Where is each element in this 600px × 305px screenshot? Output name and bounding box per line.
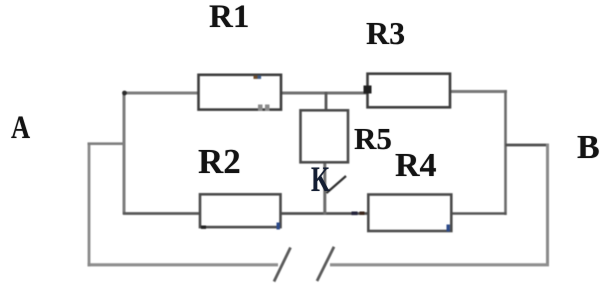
wire: outer right vertical (546, 144, 549, 266)
junction dot at R3 left pin (364, 86, 372, 94)
artifact dot at R4 bottom-right (447, 225, 450, 232)
switch K lever (open blade) (327, 176, 347, 193)
junction dot at R2 bottom-left (201, 226, 206, 229)
label R3 (366, 15, 405, 52)
artifact dot at R2 bottom-right (277, 223, 280, 230)
resistor R5 (vertical box) (301, 110, 349, 162)
wire: R2 to R4 horizontal (281, 212, 369, 215)
wire: inner-left vertical node (123, 92, 126, 215)
node label B (577, 129, 600, 167)
wire: R4 right to right vertical (451, 212, 507, 215)
break mark slash 1 on bottom wire (274, 248, 291, 282)
artifact marks inside R1 bottom-right (258, 105, 263, 112)
wire: R5 top stub (325, 92, 328, 111)
wire: outer left vertical (88, 143, 91, 267)
wire: left stub into node (88, 142, 126, 145)
switch label K (311, 158, 330, 200)
resistor R2 (200, 194, 281, 227)
wire: node to R2 horizontal (123, 212, 200, 215)
wire: R1 to R3 horizontal (281, 92, 368, 95)
resistor R1 (199, 75, 282, 110)
node label A (11, 110, 30, 147)
resistor R3 (368, 74, 451, 108)
label R5 (354, 121, 392, 157)
break mark slash 2 on bottom wire (317, 247, 334, 281)
resistor R4 (368, 195, 451, 232)
artifact dot inside R1 top-right (254, 76, 258, 79)
wire: stub to B corner (506, 144, 550, 147)
wire: top-left horizontal to R1 (123, 92, 199, 95)
junction dot at top-left node (122, 91, 127, 96)
label R2 (198, 142, 241, 182)
wire: bottom left segment (88, 263, 279, 266)
junction marks left of R4 (352, 212, 358, 216)
label R1 (209, 0, 249, 36)
wire: bottom right segment (330, 263, 549, 266)
wire: R5 bottom stub to bottom wire (323, 162, 326, 215)
label R4 (395, 147, 437, 185)
wire: R3 right to right vertical (450, 90, 507, 93)
wire: right inner vertical (504, 90, 507, 215)
